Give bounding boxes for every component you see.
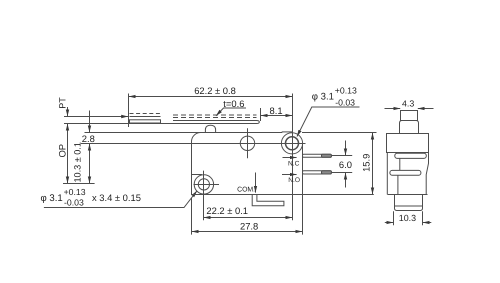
boss circle at mounting hole: [194, 175, 213, 194]
wire PT top arrow: [67, 107, 69, 116]
terminal N.C: [303, 154, 332, 157]
wire lower reference line: [63, 183, 95, 185]
wire ledge at lower-left boss: [192, 174, 202, 176]
wire terminal line N.C: [331, 155, 352, 157]
hole phi3.1 hinge: [286, 137, 299, 150]
wire N.C arrow: [283, 157, 297, 159]
terminal N.O tip fill: [322, 171, 332, 174]
svg-text:27.8: 27.8: [240, 221, 258, 232]
wire terminal line N.O: [331, 172, 352, 174]
svg-text:-0.03: -0.03: [64, 198, 84, 208]
wire OP dimension line: [67, 124, 69, 183]
terminal N.O: [303, 171, 332, 174]
side view bottom inner line: [395, 205, 423, 207]
wire dimension line 27.8: [192, 231, 302, 233]
wire leader t=0.6: [216, 108, 246, 116]
wire extension line right 27.8: [302, 195, 304, 235]
wire dimension line 22.2: [204, 217, 292, 219]
switch body outline: [192, 133, 303, 195]
svg-text:OP: OP: [57, 144, 68, 158]
svg-text:-0.03: -0.03: [335, 98, 355, 108]
svg-text:COM.: COM.: [237, 187, 255, 194]
wire extension line bottom 15.9: [303, 194, 374, 196]
wire extension line left of 62.2: [128, 94, 130, 128]
terminal COM: [252, 195, 284, 206]
wire 6.0 bottom arrow: [345, 173, 347, 188]
wire 10.3 dimension line: [89, 144, 91, 183]
svg-text:φ 3.1: φ 3.1: [41, 193, 63, 204]
wire PT free-position line: [64, 116, 128, 118]
lever hinge link top line: [130, 116, 161, 118]
side view bottom section: [395, 195, 423, 211]
svg-text:62.2 ± 0.8: 62.2 ± 0.8: [194, 85, 236, 96]
wire dimension line 62.2: [129, 96, 292, 98]
side view lower tab: [390, 170, 421, 175]
wire ledge at hinge boss: [282, 131, 292, 133]
side view plunger cap: [401, 111, 418, 121]
svg-text:t=0.6: t=0.6: [223, 98, 244, 109]
wire dimension line 15.9: [372, 133, 374, 194]
side view mid vertical: [399, 158, 401, 170]
side view 10.3 extension left: [393, 211, 395, 225]
side view upper body: [387, 134, 429, 153]
side view left edge: [386, 153, 388, 195]
side view bottom shoulder: [388, 194, 428, 196]
lever dashed free position (hinge): [130, 113, 162, 115]
svg-text:22.2 ± 0.1: 22.2 ± 0.1: [206, 205, 248, 216]
svg-text:15.9: 15.9: [360, 154, 371, 172]
boss circle at hinge hole: [281, 133, 302, 154]
wire 2.8 dimension arrow: [89, 111, 91, 133]
svg-text:N.O: N.O: [288, 177, 300, 184]
wire extension line right (long, through hinge hole): [292, 94, 294, 221]
side view plunger neck: [400, 121, 419, 134]
wire leader phi 3.1 top: [297, 107, 360, 137]
wire 6.0 top arrow: [345, 141, 347, 156]
wire extension line top 15.9: [302, 132, 377, 134]
wire N.O arrow: [282, 174, 297, 176]
wire crosshair vertical plunger hole: [247, 128, 249, 158]
side view 4.3 arrow right: [418, 108, 434, 110]
wire leader phi 3.1 bottom: [44, 191, 197, 208]
svg-text:10.3: 10.3: [399, 213, 416, 223]
svg-text:2.8: 2.8: [82, 133, 95, 144]
svg-text:x 3.4 ± 0.15: x 3.4 ± 0.15: [92, 192, 141, 203]
lever arm: [173, 121, 259, 124]
hole phi3.1 mounting: [198, 179, 209, 190]
wire extension line left of 8.1: [260, 108, 262, 121]
wire body-top extended line: [85, 132, 282, 134]
svg-text:N.C: N.C: [288, 160, 300, 167]
plunger pin circle: [240, 136, 254, 150]
svg-text:+0.13: +0.13: [335, 85, 357, 95]
wire dimension line 8.1: [261, 115, 292, 117]
wire extension line hole center 22.2: [203, 171, 205, 221]
wire step at hinge boss: [281, 132, 283, 133]
lever hinge link: [130, 120, 161, 123]
svg-text:8.1: 8.1: [270, 105, 283, 116]
lever dashed free position lower: [173, 117, 257, 119]
side view upper tab: [395, 153, 427, 158]
svg-text:φ 3.1: φ 3.1: [312, 91, 334, 102]
side view right vertical: [426, 153, 428, 195]
side view 10.3 arrow right: [423, 222, 432, 224]
svg-text:+0.13: +0.13: [64, 187, 86, 197]
svg-text:4.3: 4.3: [402, 98, 414, 108]
terminal N.C tip fill: [322, 154, 332, 157]
side view 10.3 extension right: [422, 211, 424, 225]
svg-text:6.0: 6.0: [339, 159, 352, 170]
wire crosshair horizontal lower hole: [194, 184, 220, 186]
side view right edge lower: [397, 175, 399, 194]
side view 10.3 arrow left: [385, 222, 393, 224]
wire centerline through holes: [81, 143, 306, 145]
plunger dome: [205, 125, 215, 132]
wire PT operating line: [64, 123, 257, 125]
wire COM arrow: [255, 173, 257, 193]
wire extension line left 27.8: [191, 198, 193, 235]
svg-text:10.3 ± 0.1: 10.3 ± 0.1: [72, 142, 82, 182]
svg-text:PT: PT: [58, 97, 68, 109]
side view 4.3 arrow left: [385, 108, 401, 110]
lever dashed free position upper: [173, 114, 257, 116]
